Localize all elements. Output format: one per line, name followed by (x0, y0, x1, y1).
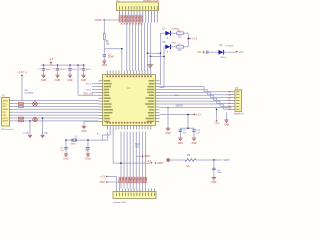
svg-text:+3.3: +3.3 (192, 36, 198, 40)
svg-text:Header 7X2A: Header 7X2A (143, 0, 159, 3)
svg-text:GND: GND (178, 143, 183, 145)
svg-text:OSC1: OSC1 (85, 84, 91, 86)
svg-text:SS14: SS14 (221, 57, 227, 59)
svg-text:AGND: AGND (3, 120, 9, 123)
svg-text:PB19: PB19 (144, 177, 147, 184)
svg-text:PB11: PB11 (121, 177, 124, 184)
svg-text:PB16: PB16 (136, 177, 139, 184)
svg-text:100nF: 100nF (108, 57, 115, 59)
svg-text:GND: GND (81, 80, 86, 82)
svg-text:GND: GND (55, 80, 60, 82)
svg-text:100n: 100n (86, 69, 92, 71)
svg-text:NRST: NRST (157, 163, 164, 165)
svg-text:SWO: SWO (174, 95, 179, 97)
svg-text:+3.3VA: +3.3VA (22, 132, 29, 135)
svg-text:GND: GND (102, 65, 107, 67)
svg-text:+3.3: +3.3 (147, 161, 152, 163)
svg-text:PB14: PB14 (130, 177, 133, 184)
svg-text:GND: GND (191, 143, 196, 145)
svg-text:PA6: PA6 (228, 96, 231, 99)
svg-text:VBAT: VBAT (144, 155, 150, 158)
svg-text:MIC-Interface: MIC-Interface (1, 128, 15, 131)
svg-text:SWDIO: SWDIO (176, 105, 184, 107)
svg-text:8MHz: 8MHz (71, 143, 77, 145)
svg-text:TMS_1V8: TMS_1V8 (83, 93, 94, 95)
svg-text:3V3TCK: 3V3TCK (122, 15, 125, 25)
svg-text:MIC-: MIC- (3, 106, 7, 108)
svg-text:GND: GND (85, 159, 90, 161)
svg-text:GND: GND (67, 80, 72, 82)
svg-text:OSC2: OSC2 (85, 89, 91, 91)
svg-text:+5V: +5V (197, 51, 202, 54)
svg-text:100n: 100n (46, 69, 52, 71)
svg-text:AOUT: AOUT (3, 117, 9, 120)
svg-text:TDO: TDO (135, 144, 140, 146)
svg-text:+3.3V_A: +3.3V_A (18, 71, 27, 74)
svg-text:+3.3: +3.3 (214, 123, 219, 125)
svg-text:TDI: TDI (135, 147, 139, 149)
svg-text:+3.3VA: +3.3VA (41, 132, 48, 135)
svg-text:PB12: PB12 (124, 177, 127, 184)
svg-text:Header 7X2H: Header 7X2H (114, 201, 127, 204)
svg-text:+3.3: +3.3 (100, 176, 105, 178)
svg-text:U2: U2 (127, 86, 131, 90)
svg-text:5023BML: 5023BML (25, 92, 35, 94)
svg-text:GND: GND (63, 159, 68, 161)
svg-text:AGND: AGND (3, 99, 9, 102)
svg-text:100n: 100n (72, 69, 78, 71)
svg-text:PB18: PB18 (141, 177, 144, 184)
svg-text:PB13: PB13 (127, 177, 130, 184)
svg-text:PA6: PA6 (228, 108, 231, 111)
svg-text:GND: GND (81, 131, 86, 133)
svg-text:POWER: POWER (226, 45, 235, 47)
svg-text:GND: GND (211, 182, 216, 184)
svg-text:VTREF: VTREF (94, 20, 102, 22)
svg-text:+3.3: +3.3 (239, 51, 244, 54)
svg-text:NRST: NRST (223, 160, 230, 162)
svg-text:PA6: PA6 (228, 91, 231, 94)
svg-text:PA6: PA6 (228, 99, 231, 102)
svg-text:+3.3: +3.3 (196, 113, 201, 116)
svg-text:GND: GND (100, 182, 105, 184)
svg-text:GND: GND (165, 133, 170, 135)
svg-text:AGND: AGND (3, 108, 9, 111)
svg-text:PA6: PA6 (228, 93, 231, 96)
svg-text:GND: GND (41, 80, 46, 82)
svg-text:PA6: PA6 (228, 102, 231, 105)
svg-text:RED: RED (172, 42, 177, 44)
svg-text:PB15: PB15 (133, 177, 136, 184)
svg-text:+1.8: +1.8 (49, 59, 54, 61)
svg-text:PB17: PB17 (138, 177, 141, 184)
svg-text:Header 8: Header 8 (234, 113, 244, 116)
svg-text:100n: 100n (217, 172, 223, 174)
svg-text:GND: GND (224, 124, 229, 126)
